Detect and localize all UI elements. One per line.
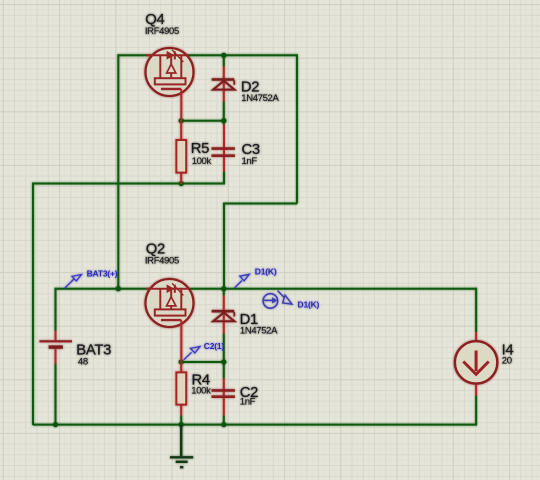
current source I4 [455,341,497,383]
wire node R4/C2 y362 [181,361,224,363]
wire far-left vertical x33 [32,183,34,426]
battery BAT3 plates [39,340,72,342]
diode D1 symbol [212,311,235,321]
svg-text:IRF4905: IRF4905 [145,256,179,267]
wire right vertical x297 from top rail down [296,54,298,203]
wire D2 bottom green stub [223,102,225,121]
svg-text:20: 20 [502,356,512,367]
wire node R5/C3 top y120.7 [181,120,224,122]
current probe circle icon [263,294,278,309]
wire D2 top green stub [223,55,225,66]
voltage probe C2(1) arrow [184,347,200,360]
voltage probe D1(K) arrow [235,274,250,288]
ground symbol [170,425,193,468]
wire I4 top vertical [475,288,477,333]
junction dot R5 top node [179,118,184,123]
wire R5/C3 bottom rail y183.5 [33,183,224,185]
svg-text:D1(K): D1(K) [298,300,320,310]
current source I4 pins [475,332,477,395]
svg-text:C2(1): C2(1) [204,341,225,351]
wire vertical x224 down to Q2 rail [223,203,225,289]
wire R4 bottom green stub [180,416,182,425]
wire vertical left x118 from top rail down to Q2 rail [117,54,119,288]
wire D1 bottom green stub [223,334,225,363]
svg-text:1nF: 1nF [240,397,256,408]
wire battery bottom vertical [55,364,57,425]
junction dot R4 top node [179,359,184,364]
junction dot ground node [179,422,184,427]
svg-text:1N4752A: 1N4752A [241,93,279,104]
transistor Q4 (IRF4905 P-MOSFET) [146,48,194,96]
wire D1 top green stub [223,289,225,296]
wire horizontal y203.5 [224,203,297,205]
svg-text:100k: 100k [191,386,211,397]
wire C2 top green stub [223,362,225,379]
battery BAT3 pins [55,331,57,364]
junction dot D1 top on Q2 rail [221,286,226,291]
wire C3 bottom stub [223,172,225,185]
svg-text:D1(K): D1(K) [255,267,277,277]
wire C2 bottom green stub [223,416,225,425]
svg-text:BAT3(+): BAT3(+) [87,268,118,278]
diode D2 symbol [212,80,235,90]
Q2 gate pin wire [180,320,182,362]
junction dot C2 top node [221,359,226,364]
capacitor C3 1nF [223,125,225,172]
svg-text:IRF4905: IRF4905 [145,26,179,37]
junction dot D2 top [221,53,226,58]
transistor Q2 (IRF4905 P-MOSFET) [146,279,194,327]
capacitor C2 1nF [223,379,225,416]
junction dot C3 top node [221,118,226,123]
wire Q2 source rail y288.7 [56,288,477,290]
svg-text:1nF: 1nF [242,156,258,167]
wire I4 bottom vertical [475,396,477,426]
svg-text:1N4752A: 1N4752A [240,325,278,336]
junction dot C2 bottom [221,422,226,427]
junction dot x118 on Q2 rail [116,286,121,291]
wire C3 top green stub [223,121,225,125]
diode D1 (zener 1N4752A) pins [223,296,225,334]
svg-text:R5: R5 [191,141,209,157]
wire top rail from Q4 source to right corner [118,54,297,56]
junction dot R5 bottom [179,181,184,186]
diode D2 (zener 1N4752A) pins [223,67,225,102]
svg-text:48: 48 [78,357,88,368]
wire bottom rail y424.6 [33,424,476,426]
Q4 gate pin wire [180,89,182,121]
junction dot battery bottom [53,422,58,427]
current probe pointer arrow [278,291,292,305]
svg-text:100k: 100k [192,156,212,167]
wire battery top vertical [55,288,57,331]
resistor R4 100k [180,362,182,416]
resistor R5 100k [180,121,182,184]
voltage probe BAT3(+) arrow [65,275,82,289]
